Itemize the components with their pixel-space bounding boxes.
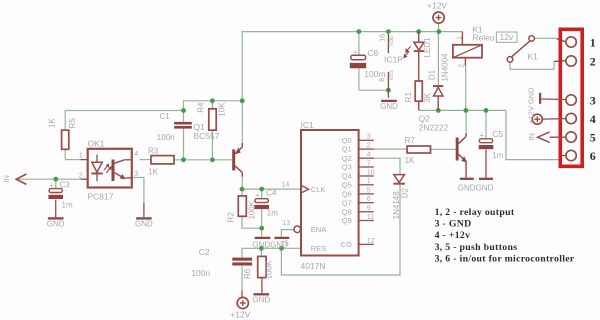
svg-text:1K: 1K — [405, 156, 415, 165]
svg-text:100n: 100n — [191, 268, 210, 278]
svg-text:Q1: Q1 — [342, 145, 352, 154]
svg-text:1m: 1m — [492, 151, 503, 160]
svg-text:C6: C6 — [367, 48, 378, 58]
svg-text:7: 7 — [367, 160, 371, 167]
svg-text:Q9: Q9 — [342, 216, 352, 225]
svg-text:C2: C2 — [199, 247, 210, 257]
svg-text:3: 3 — [590, 93, 596, 107]
svg-text:10: 10 — [367, 169, 375, 176]
svg-text:Q8: Q8 — [342, 207, 352, 216]
svg-text:D1: D1 — [427, 69, 436, 80]
svg-text:1N4004: 1N4004 — [440, 53, 449, 82]
svg-text:VSS: VSS — [389, 70, 395, 81]
svg-text:1: 1 — [457, 36, 464, 40]
svg-text:1: 1 — [367, 178, 371, 185]
svg-text:1N4148: 1N4148 — [392, 191, 401, 220]
svg-text:2: 2 — [79, 172, 83, 179]
svg-text:3 - GND: 3 - GND — [435, 218, 472, 229]
svg-text:3K: 3K — [423, 92, 432, 102]
svg-text:2: 2 — [367, 143, 371, 150]
svg-text:8: 8 — [379, 78, 386, 82]
svg-text:BC557: BC557 — [194, 131, 220, 141]
svg-text:R1: R1 — [404, 92, 413, 103]
svg-text:14: 14 — [282, 182, 290, 189]
svg-text:OK1: OK1 — [88, 139, 105, 149]
svg-text:4 - +12v: 4 - +12v — [435, 230, 471, 241]
svg-text:R2: R2 — [227, 212, 236, 223]
svg-text:1m: 1m — [62, 200, 73, 209]
svg-text:2: 2 — [590, 54, 596, 68]
svg-text:RES: RES — [311, 244, 326, 253]
svg-text:R5: R5 — [68, 118, 77, 129]
svg-text:GNDGND: GNDGND — [458, 183, 494, 192]
svg-text:16: 16 — [380, 34, 387, 42]
svg-text:K1: K1 — [527, 52, 538, 62]
svg-text:3: 3 — [134, 171, 138, 178]
svg-text:C5: C5 — [492, 129, 503, 139]
svg-text:4017N: 4017N — [301, 261, 326, 271]
svg-text:3, 6 - in/out for microcontrol: 3, 6 - in/out for microcontroller — [435, 253, 575, 264]
svg-text:GND: GND — [135, 220, 153, 229]
svg-text:4: 4 — [367, 152, 371, 159]
svg-text:IC1P: IC1P — [384, 55, 403, 65]
svg-text:6: 6 — [590, 149, 596, 163]
svg-text:+12V: +12V — [230, 310, 250, 320]
svg-text:4: 4 — [590, 112, 596, 126]
svg-text:R4: R4 — [196, 102, 205, 113]
svg-text:VDD: VDD — [389, 35, 395, 46]
svg-text:12: 12 — [367, 238, 375, 245]
svg-text:100n: 100n — [157, 133, 175, 142]
svg-text:1: 1 — [79, 152, 83, 159]
svg-text:1K: 1K — [47, 118, 56, 128]
svg-text:100m: 100m — [364, 69, 385, 79]
svg-text:2: 2 — [458, 64, 465, 68]
svg-text:R7: R7 — [405, 136, 416, 145]
svg-text:11: 11 — [367, 214, 374, 221]
svg-text:9: 9 — [367, 205, 371, 212]
svg-text:R3: R3 — [148, 146, 159, 155]
svg-text:GND: GND — [252, 296, 270, 305]
svg-text:6: 6 — [367, 196, 371, 203]
svg-text:3, 5 - push buttons: 3, 5 - push buttons — [435, 242, 518, 253]
svg-text:ENA: ENA — [311, 225, 326, 234]
svg-text:C3: C3 — [60, 180, 71, 189]
svg-text:Releu: Releu — [472, 32, 494, 42]
svg-text:GND: GND — [527, 87, 536, 104]
svg-text:12v: 12v — [500, 32, 514, 42]
svg-text:Q4: Q4 — [342, 172, 352, 181]
svg-text:+12V: +12V — [427, 1, 447, 11]
svg-text:R6: R6 — [243, 268, 252, 279]
svg-text:IN: IN — [527, 133, 536, 141]
svg-text:Q6: Q6 — [342, 190, 352, 199]
svg-text:CO: CO — [341, 240, 352, 249]
svg-text:Q2: Q2 — [342, 154, 352, 163]
svg-text:GND: GND — [47, 220, 65, 229]
svg-text:1m: 1m — [267, 208, 278, 217]
svg-text:13: 13 — [282, 220, 290, 227]
svg-text:1K: 1K — [148, 168, 158, 177]
svg-text:15: 15 — [281, 241, 289, 248]
svg-text:PC817: PC817 — [88, 192, 114, 202]
svg-text:Q0: Q0 — [342, 136, 352, 145]
svg-text:D2: D2 — [400, 187, 409, 198]
svg-text:IC1: IC1 — [301, 120, 315, 130]
svg-text:5: 5 — [590, 130, 596, 144]
svg-text:Q3: Q3 — [342, 163, 352, 172]
svg-text:GND: GND — [380, 102, 398, 111]
svg-text:LED1: LED1 — [423, 37, 432, 58]
svg-text:C1: C1 — [160, 112, 171, 121]
svg-text:1, 2 - relay output: 1, 2 - relay output — [435, 207, 515, 218]
svg-text:IN: IN — [2, 175, 11, 183]
svg-text:CLK: CLK — [311, 185, 326, 194]
svg-text:5: 5 — [367, 187, 371, 194]
svg-text:100K: 100K — [247, 200, 256, 219]
svg-text:4: 4 — [134, 151, 138, 158]
svg-text:C4: C4 — [266, 188, 277, 197]
svg-text:2N2222: 2N2222 — [419, 122, 449, 132]
svg-text:100K: 100K — [265, 260, 274, 279]
svg-text:10K: 10K — [217, 102, 226, 117]
svg-text:1: 1 — [590, 35, 596, 49]
svg-text:+12V: +12V — [526, 106, 535, 124]
svg-text:Q5: Q5 — [342, 180, 352, 189]
svg-text:Q7: Q7 — [342, 198, 352, 207]
svg-text:3: 3 — [367, 134, 371, 141]
